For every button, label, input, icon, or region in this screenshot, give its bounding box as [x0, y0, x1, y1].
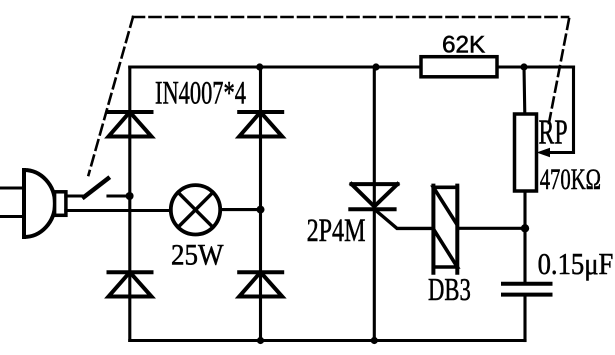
potentiometer wiper arrowhead: [537, 148, 551, 158]
capacitor C 0.15uF plates: [503, 284, 551, 295]
dashed mechanical-link line right diagonal to RP: [548, 19, 569, 128]
bottom rail wire: [130, 339, 525, 342]
wire switch contact to node A: [108, 194, 130, 197]
plug body: [24, 170, 55, 237]
switch arm (open): [84, 179, 108, 198]
diode D4 (lower right): [239, 272, 282, 296]
svg-text:470KΩ: 470KΩ: [540, 162, 601, 196]
junction dot top rail / SCR line: [372, 63, 379, 70]
diode D2 (upper right): [239, 112, 282, 137]
bridge right vertical wire: [259, 67, 262, 341]
svg-text:25W: 25W: [171, 239, 224, 272]
node B junction dot: [257, 206, 265, 214]
plug prong upper: [0, 186, 24, 189]
junction dot top rail / node B line: [256, 63, 263, 70]
capacitor lower wire: [523, 295, 526, 341]
svg-text:0.15μF: 0.15μF: [538, 247, 614, 281]
bridge left vertical wire: [128, 67, 131, 341]
wire plug to switch: [66, 194, 85, 197]
diac DB3 upper triangle: [433, 187, 457, 225]
potentiometer wiper feed wire: [548, 67, 574, 153]
potentiometer RP vertical wire upper: [522, 67, 526, 114]
potentiometer RP body: [515, 114, 537, 191]
diac DB3 left bar: [431, 186, 435, 273]
dashed mechanical-link line top: [133, 16, 568, 19]
top rail wire: [130, 65, 574, 68]
diac DB3 lower triangle: [433, 229, 457, 267]
junction dot top rail / RP line: [520, 63, 527, 70]
svg-text:IN4007*4: IN4007*4: [155, 75, 246, 111]
thyristor V 2P4M vertical wire: [373, 67, 376, 341]
junction dot bottom rail / node B line: [257, 337, 264, 344]
plug neck: [55, 192, 66, 216]
junction dot bottom rail / SCR line: [371, 337, 378, 344]
svg-text:62K: 62K: [442, 31, 485, 58]
diac DB3 right bar: [455, 186, 459, 273]
thyristor gate wire: [377, 211, 434, 228]
wire plug lower to lamp: [66, 209, 171, 212]
lamp EL 25W (circle with X): [171, 185, 220, 234]
diode D3 (lower left): [109, 272, 152, 296]
node A junction dot: [126, 192, 134, 200]
node C junction dot: [521, 224, 529, 232]
potentiometer RP vertical wire lower: [523, 191, 526, 284]
resistor 62K body: [421, 57, 497, 77]
dashed mechanical-link line left diagonal to switch: [89, 17, 134, 175]
wire lamp to node B: [221, 208, 261, 211]
diode D1 (upper left): [109, 112, 152, 137]
thyristor V 2P4M symbol: [350, 184, 397, 209]
plug prong lower: [0, 215, 24, 218]
wire diac to node C: [457, 227, 525, 230]
svg-text:2P4M: 2P4M: [307, 212, 366, 249]
svg-text:RP: RP: [539, 113, 568, 152]
svg-text:DB3: DB3: [428, 272, 471, 306]
